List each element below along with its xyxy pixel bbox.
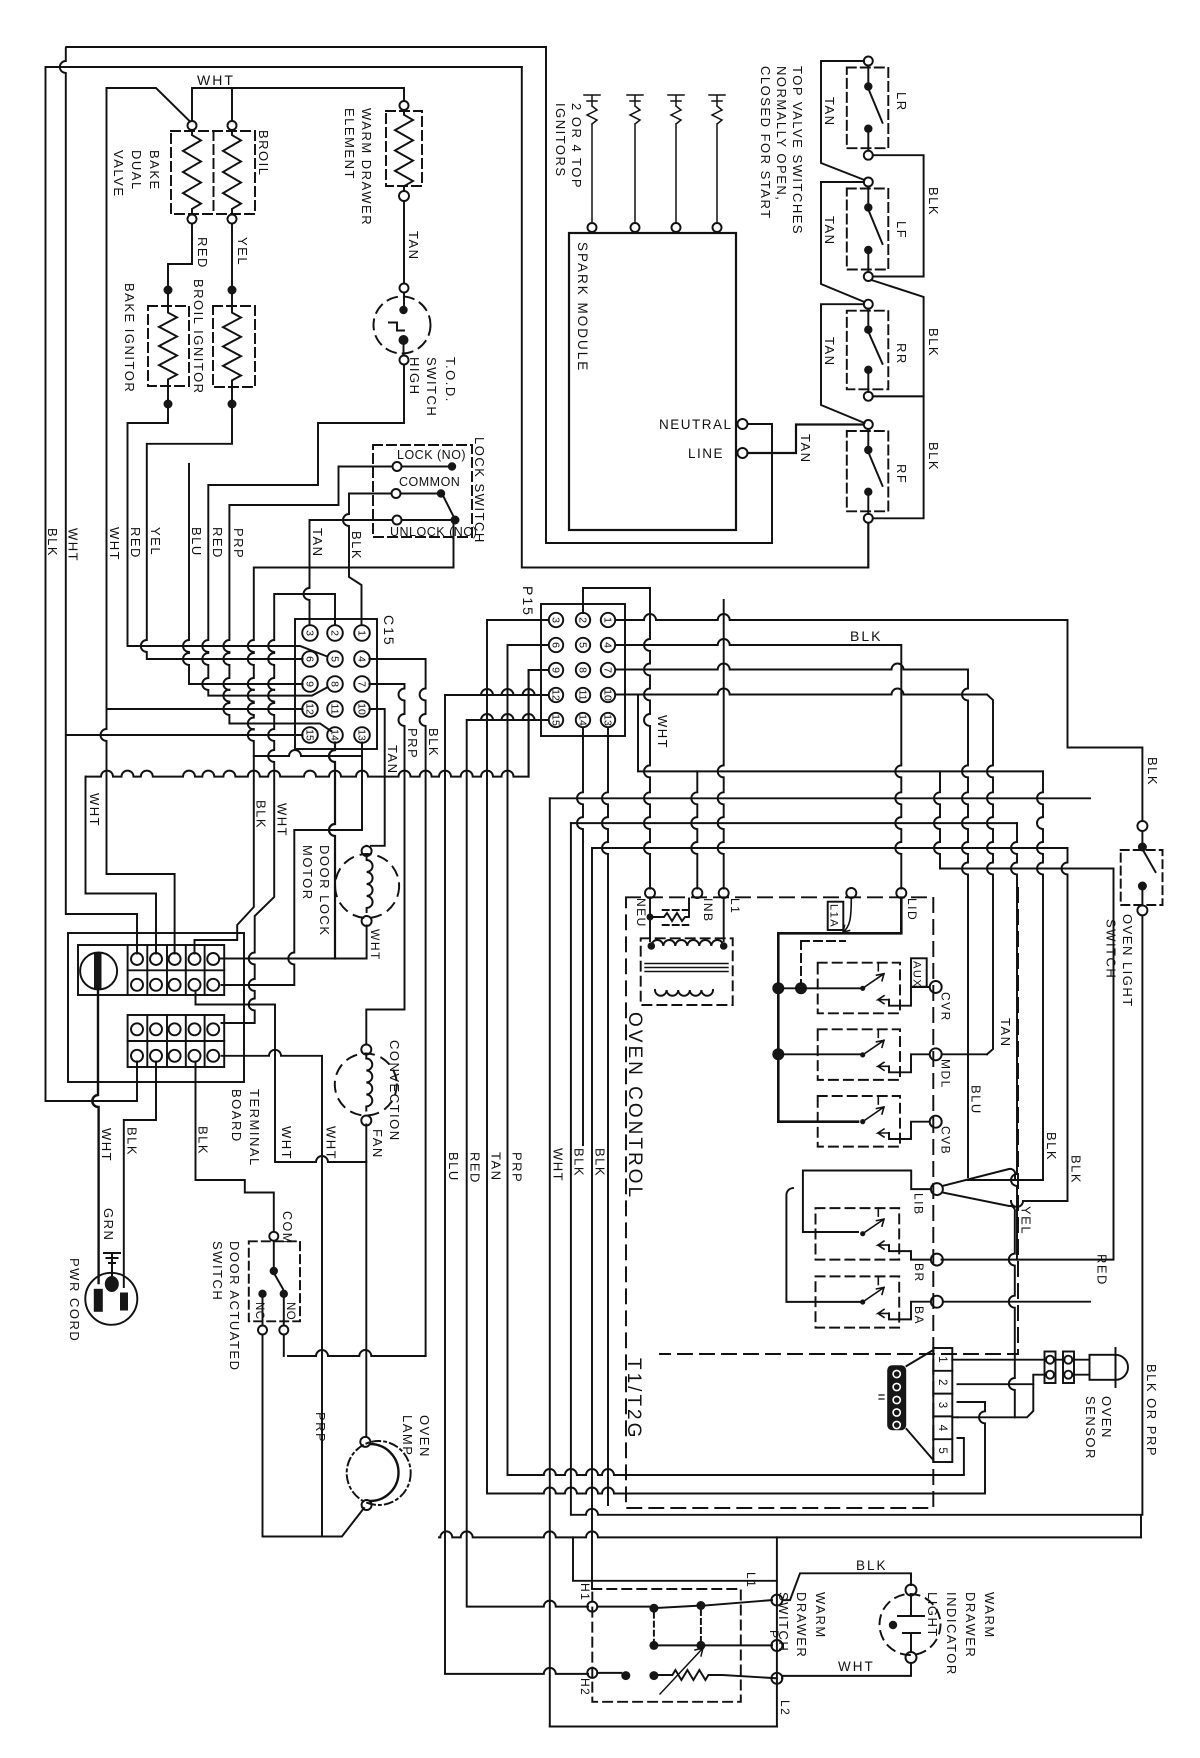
- wire: valve box top: [107, 88, 191, 122]
- svg-text:3: 3: [549, 617, 561, 623]
- svg-text:4: 4: [355, 656, 367, 662]
- wire: NC contact down to C15 area: [248, 524, 454, 756]
- wire: UNLOCK to TAN bus then C15 pin3: [304, 520, 393, 625]
- terminal motor bottom: [362, 916, 372, 926]
- door actuated switch box: [249, 1241, 300, 1321]
- sensor pin label 3: [936, 1402, 948, 1408]
- contact dot: [270, 1267, 278, 1275]
- wire L1 to light BLK: [782, 1573, 911, 1600]
- svg-text:PWR CORD: PWR CORD: [67, 1258, 82, 1342]
- relay CVB relay pivot: [860, 1119, 865, 1124]
- connector P15 box: [541, 604, 625, 736]
- terminal CVB: [930, 1116, 942, 1128]
- P15 pin 9: [549, 663, 563, 677]
- junction dot: [720, 942, 728, 950]
- wire: RF bottom down: [867, 523, 869, 568]
- variable resistor: [658, 1670, 777, 1680]
- svg-text:TAN: TAN: [998, 1018, 1013, 1048]
- tb pin lower: [150, 1023, 162, 1035]
- wire: L1A hook to relay bus: [843, 898, 851, 932]
- wire NEU down: [649, 898, 651, 941]
- contact dot NO: [280, 1290, 288, 1298]
- svg-text:BROIL: BROIL: [256, 130, 271, 177]
- top valve switch RF: [847, 431, 889, 511]
- terminal broil top: [228, 121, 237, 130]
- outer box bottom edge: [439, 1531, 1141, 1537]
- wire: WHT bracket over valves: [192, 88, 232, 121]
- tb pin lower: [169, 1050, 181, 1062]
- valve dual box: [171, 131, 255, 214]
- boxed label L1A: [828, 902, 844, 930]
- wire: BLK frame line: [46, 67, 522, 1101]
- C15 pin 14: [327, 727, 343, 743]
- plug prong: [94, 1289, 103, 1312]
- svg-text:LIB: LIB: [912, 1193, 926, 1216]
- svg-text:NORMALLY OPEN,: NORMALLY OPEN,: [774, 66, 789, 201]
- svg-text:DUAL: DUAL: [129, 150, 144, 191]
- warm drawer switch dashed box: [592, 1589, 741, 1702]
- wire: tb col5 row1 to door lock motor: [219, 926, 366, 959]
- ignitor symbol 1: [584, 95, 600, 223]
- wire: BLK RR to RF: [873, 396, 924, 518]
- P15 pin 4: [601, 638, 615, 652]
- tb pin lower: [207, 1050, 219, 1062]
- C15 pin 1: [354, 625, 370, 641]
- inner dashed vertical: [660, 888, 1018, 1354]
- svg-text:BOARD: BOARD: [229, 1089, 244, 1143]
- C15 pin 8: [327, 676, 343, 692]
- boxed label AUX: [911, 958, 927, 986]
- svg-text:1: 1: [936, 1356, 948, 1362]
- wire light bottom WHT to L2: [782, 1663, 911, 1678]
- C15 pin 10: [354, 701, 370, 717]
- wire: TAN bus LR feed: [821, 61, 865, 180]
- svg-text:DRAWER: DRAWER: [794, 1592, 809, 1658]
- bake ignitor box: [148, 306, 189, 386]
- svg-text:BLK: BLK: [349, 531, 364, 560]
- blade diag: [597, 1672, 621, 1674]
- wire: broil ignitor to YEL bus then C15 pin6: [141, 409, 303, 660]
- wire L1 down: [723, 898, 725, 941]
- wire: x1067.5 BLK riser: [1011, 848, 1068, 1207]
- svg-text:WHT: WHT: [107, 527, 122, 561]
- junction dots on bus: [772, 982, 784, 994]
- contact dot: [451, 516, 460, 525]
- svg-text:2 OR 4 TOP: 2 OR 4 TOP: [569, 103, 584, 189]
- P15 pin 15: [549, 713, 563, 727]
- svg-text:WARM DRAWER: WARM DRAWER: [359, 108, 374, 226]
- svg-text:LF: LF: [894, 221, 909, 239]
- TOD jog contact: [389, 323, 404, 331]
- relay BR relay box: [816, 1208, 900, 1260]
- resistor bake ignitor: [159, 308, 177, 384]
- svg-text:MOTOR: MOTOR: [300, 845, 315, 901]
- P15 pin 6: [549, 638, 563, 652]
- svg-text:NO: NO: [284, 1302, 296, 1320]
- svg-text:BLK: BLK: [1145, 757, 1160, 786]
- terminal lamp top: [360, 1437, 370, 1447]
- transformer core: [645, 964, 728, 972]
- svg-text:LR: LR: [894, 92, 909, 112]
- switch pole 1: [597, 1606, 649, 1608]
- svg-text:BAKE: BAKE: [147, 150, 162, 191]
- terminal CVR: [930, 981, 942, 993]
- wire: YEL broil valve to ignitor: [231, 224, 233, 286]
- terminal LID: [896, 888, 906, 898]
- svg-text:OVEN CONTROL: OVEN CONTROL: [624, 1012, 645, 1200]
- tb pin: [169, 953, 181, 965]
- junction dot: [647, 914, 654, 921]
- P15 pin 12: [549, 688, 563, 702]
- svg-text:L1: L1: [728, 898, 742, 914]
- contact dot: [1138, 882, 1147, 891]
- warm drawer element box: [386, 111, 422, 186]
- svg-text:10: 10: [601, 689, 613, 701]
- svg-text:7: 7: [601, 667, 613, 673]
- svg-text:9: 9: [303, 681, 315, 687]
- wire: row 848: [592, 847, 1068, 849]
- svg-text:WHT: WHT: [99, 1128, 114, 1162]
- C15 pin 5: [327, 651, 343, 667]
- resistor NEU-INB: [663, 910, 689, 925]
- terminal light top: [906, 1585, 917, 1596]
- sensor plug diagonals: [907, 1350, 934, 1460]
- svg-text:CVB: CVB: [939, 1126, 953, 1155]
- switch blade: [444, 497, 454, 517]
- wire pivot feed: [783, 1053, 860, 1055]
- svg-text:COMMON: COMMON: [399, 475, 460, 489]
- wire: x570.9 bus to oven light switch line: [571, 823, 1141, 1537]
- C15 pin 7: [354, 676, 370, 692]
- inner solid box around switch: [550, 1537, 777, 1726]
- sensor plug marks: [879, 1395, 884, 1399]
- svg-text:DOOR ACTUATED: DOOR ACTUATED: [227, 1241, 242, 1372]
- svg-text:RED: RED: [468, 1152, 483, 1184]
- wire: P15 pin15 feeder down to warm drawer H1: [467, 714, 588, 1607]
- terminal board upper block: [78, 945, 224, 995]
- P15 pin 5: [576, 638, 590, 652]
- svg-text:MDL: MDL: [939, 1059, 953, 1089]
- tb pin: [189, 979, 201, 991]
- wire: NC-BLK jog to terminal board: [195, 756, 254, 954]
- svg-text:L1A: L1A: [828, 904, 840, 928]
- sensor pin label 1: [936, 1356, 948, 1362]
- wire: x549.8 long bus: [550, 798, 777, 1726]
- terminal L1: [771, 1595, 782, 1606]
- wire: TOD bottom to RED bus2 then C15 pin8: [202, 365, 404, 696]
- junction dot: [164, 400, 173, 409]
- svg-text:C15: C15: [381, 615, 397, 647]
- svg-text:TAN: TAN: [822, 337, 837, 367]
- wire: P15 pin1 BLK to oven light switch: [616, 614, 1143, 821]
- svg-text:SWITCH: SWITCH: [424, 357, 439, 417]
- svg-text:OVEN LIGHT: OVEN LIGHT: [1120, 914, 1135, 1008]
- terminal H2: [587, 1668, 597, 1678]
- wire: P15 pin4 BLK to LID: [616, 639, 902, 889]
- wire: motor top jog to pin10 riser: [366, 845, 368, 847]
- motor coil: [367, 856, 373, 912]
- svg-text:GRN: GRN: [101, 1208, 116, 1241]
- resistor bake valve: [183, 130, 201, 214]
- terminal light bottom: [906, 1652, 917, 1663]
- svg-text:ELEMENT: ELEMENT: [342, 108, 357, 180]
- terminal strip L1 P L2: [776, 1537, 778, 1726]
- wire: row 798: [550, 797, 1090, 799]
- resistor broil ignitor: [223, 308, 241, 385]
- terminal TOD top: [400, 284, 409, 293]
- svg-text:WHT: WHT: [279, 1126, 294, 1160]
- dot: [889, 1621, 897, 1629]
- wire common contact: [401, 493, 437, 495]
- terminal L1A: [846, 888, 856, 898]
- svg-text:RED: RED: [195, 237, 210, 269]
- svg-text:BLK OR PRP: BLK OR PRP: [1144, 1364, 1159, 1457]
- svg-text:OVEN: OVEN: [1099, 1396, 1114, 1439]
- svg-text:PRP: PRP: [405, 728, 420, 759]
- svg-text:WHT: WHT: [838, 1659, 875, 1674]
- P15 pin 2: [576, 613, 590, 627]
- svg-text:TAN: TAN: [822, 97, 837, 127]
- svg-text:T1/T2G: T1/T2G: [623, 1358, 644, 1440]
- terminal BR: [931, 1254, 943, 1266]
- svg-text:TAN: TAN: [310, 528, 325, 558]
- svg-text:YEL: YEL: [235, 237, 250, 266]
- svg-text:BLK: BLK: [1044, 1132, 1059, 1161]
- sensor pin label 4: [936, 1425, 948, 1432]
- svg-text:WHT: WHT: [66, 528, 81, 562]
- wire: WHT bus to valves: [101, 88, 175, 954]
- wire: C15 pin14 down (thick): [329, 743, 335, 959]
- wire: BLK LR to LF: [873, 155, 924, 276]
- svg-text:RED: RED: [128, 527, 143, 559]
- wire sensor row1: [952, 1359, 1089, 1361]
- tb pin: [150, 953, 162, 965]
- svg-text:14: 14: [576, 714, 588, 726]
- terminal NO bottom: [279, 1326, 288, 1335]
- wire: P15 pin13 down: [602, 728, 608, 1506]
- transformer secondary: [655, 990, 713, 996]
- P15 pin 13: [601, 713, 615, 727]
- svg-text:1: 1: [601, 617, 613, 623]
- tb pin: [169, 979, 181, 991]
- svg-text:BLK: BLK: [593, 1148, 608, 1177]
- wire LINE to TAN riser to RF top: [748, 425, 864, 454]
- oven control dashed box: [626, 897, 933, 1508]
- wire: tb row2 col4 to convection fan WHT: [196, 991, 367, 1162]
- wire: COMMON to BLK bus then C15 pin1: [343, 494, 392, 626]
- svg-text:PRP: PRP: [510, 1152, 525, 1183]
- svg-text:OVEN: OVEN: [417, 1415, 432, 1458]
- wire: WHT bus T to C15 pin12: [107, 708, 303, 710]
- C15 pin 3: [302, 625, 318, 641]
- terminal fan bottom: [361, 1116, 371, 1126]
- convection fan dashed circle: [335, 1054, 397, 1116]
- svg-text:WHT: WHT: [87, 793, 102, 827]
- svg-text:12: 12: [303, 703, 315, 715]
- svg-text:13: 13: [355, 729, 367, 741]
- relay BR relay pivot: [860, 1231, 865, 1236]
- svg-text:BLK: BLK: [426, 728, 441, 757]
- svg-text:YEL: YEL: [148, 527, 163, 556]
- sensor strip 1-5: [933, 1348, 952, 1462]
- wire: row 771 from pin10 drop: [638, 695, 1043, 772]
- C15 pin 9: [302, 676, 318, 692]
- cell dividers upper: [127, 945, 129, 995]
- sensor bulb: [1090, 1355, 1116, 1380]
- lamp filament arc: [370, 1444, 399, 1501]
- svg-text:SWITCH: SWITCH: [1104, 919, 1119, 979]
- tb pin lower: [150, 1050, 162, 1062]
- svg-text:8: 8: [328, 681, 340, 687]
- svg-text:HIGH: HIGH: [407, 357, 422, 396]
- svg-text:PRP: PRP: [231, 528, 246, 559]
- C15 pin 11: [327, 701, 343, 717]
- tb pin: [207, 953, 219, 965]
- oven lamp dashed circle: [347, 1441, 411, 1505]
- junction dot: [228, 286, 237, 295]
- terminal MDL: [930, 1048, 942, 1060]
- svg-text:6: 6: [549, 642, 561, 648]
- terminal P: [771, 1640, 782, 1651]
- tb pin: [150, 979, 162, 991]
- svg-text:LOCK SWITCH: LOCK SWITCH: [472, 437, 487, 544]
- svg-text:RR: RR: [894, 343, 909, 365]
- wire OLS bottom down: [1141, 915, 1143, 1514]
- terminal spark module 3: [672, 223, 681, 232]
- broil ignitor box: [213, 306, 255, 387]
- C15 pin 15: [302, 727, 318, 743]
- svg-text:BROIL IGNITOR: BROIL IGNITOR: [191, 279, 206, 395]
- svg-text:8: 8: [576, 667, 588, 673]
- svg-text:H1: H1: [578, 1583, 592, 1601]
- svg-text:INDICATOR: INDICATOR: [944, 1592, 959, 1676]
- plug prong: [120, 1293, 128, 1311]
- resistor broil valve: [223, 130, 241, 214]
- tb pin lower: [131, 1050, 143, 1062]
- transformer primary: [651, 940, 723, 946]
- svg-text:CLOSED FOR START: CLOSED FOR START: [758, 66, 773, 220]
- wire: C15 pin10 to door lock motor: [370, 709, 385, 846]
- terminal NC bottom: [258, 1326, 267, 1335]
- pwr cord circle: [85, 1273, 137, 1325]
- big circle with bar: [80, 953, 117, 990]
- ground symbol GRN: [104, 1253, 120, 1277]
- svg-text:WHT: WHT: [551, 1148, 566, 1182]
- terminal common: [392, 489, 401, 498]
- wire: C15 pin4 BLK down: [370, 659, 426, 1356]
- wire: H5 long horizontal under C15: [86, 670, 549, 777]
- junction dot: [228, 400, 237, 409]
- svg-text:VALVE: VALVE: [111, 150, 126, 197]
- terminal wde top: [400, 101, 409, 110]
- wire: BLK LF to RR: [872, 280, 924, 396]
- svg-text:AUX: AUX: [911, 961, 923, 988]
- wire pole1 to L1: [705, 1600, 772, 1605]
- door lock motor dashed circle: [335, 854, 399, 918]
- svg-text:DRAWER: DRAWER: [963, 1592, 978, 1658]
- terminal board lower block: [128, 1015, 225, 1067]
- wire MDL to right verticals: [942, 1053, 987, 1055]
- sensor plug black: [887, 1365, 906, 1430]
- terminal spark module 4: [713, 223, 722, 232]
- wire: door NO line: [288, 1350, 426, 1356]
- wire: P15 pin9 feeder: [529, 670, 549, 777]
- P15 pin 7: [601, 663, 615, 677]
- relay AUX relay pivot: [860, 986, 865, 991]
- svg-text:T.O.D.: T.O.D.: [443, 357, 458, 403]
- P15 pin 1: [601, 613, 615, 627]
- svg-text:11: 11: [328, 704, 340, 715]
- terminal spark module 2: [631, 223, 640, 232]
- svg-text:1: 1: [355, 630, 367, 636]
- terminal motor top: [362, 846, 372, 856]
- terminal unlock: [393, 516, 402, 525]
- contact dot: [437, 489, 445, 497]
- relay BA relay box: [816, 1276, 900, 1327]
- svg-text:TAN: TAN: [406, 231, 421, 261]
- relay MDL relay pivot: [860, 1052, 865, 1057]
- svg-text:WHT: WHT: [324, 1126, 339, 1160]
- P15 pin 10: [601, 688, 615, 702]
- top valve switch RR: [847, 311, 889, 390]
- tb pin: [189, 953, 201, 965]
- terminal LIB: [931, 1183, 943, 1195]
- wire: tb black bar to pwr cord WHT: [92, 989, 98, 1283]
- wire: P15 pin10 TAN to MDL: [616, 689, 994, 1055]
- ignitor symbol 2: [627, 95, 643, 223]
- svg-text:BLU: BLU: [446, 1152, 461, 1182]
- top valve switch LR: [847, 68, 889, 149]
- wire pole2 to P: [705, 1644, 772, 1646]
- svg-text:TAN: TAN: [489, 1152, 504, 1182]
- svg-text:TAN: TAN: [798, 434, 813, 464]
- svg-text:WARM: WARM: [982, 1592, 997, 1639]
- terminal NEU: [645, 888, 655, 898]
- wire: tb lower row2 col5 to right: [222, 1050, 323, 1537]
- wire: tb lower col2 to plug BLK: [124, 1062, 156, 1288]
- svg-text:6: 6: [303, 656, 315, 662]
- P15 pin 11: [576, 688, 590, 702]
- wire: L1 riser: [718, 600, 724, 889]
- terminal OLS top: [1137, 821, 1147, 831]
- wire: RED bake valve to ignitor: [168, 224, 192, 286]
- svg-text:3: 3: [303, 630, 315, 636]
- svg-text:CONVECTION: CONVECTION: [387, 1040, 402, 1142]
- svg-text:L2: L2: [778, 1700, 792, 1716]
- svg-text:BLK: BLK: [926, 328, 941, 357]
- svg-text:SENSOR: SENSOR: [1083, 1396, 1098, 1460]
- wire: LOCK(NO) to PRP bus then C15 pin14: [223, 467, 392, 732]
- tb pin lower: [189, 1050, 201, 1062]
- terminal wde bottom: [399, 191, 409, 201]
- svg-text:WHT: WHT: [275, 803, 290, 837]
- connector C15 box: [295, 619, 377, 749]
- connector blocks: [1045, 1352, 1056, 1384]
- wire: LIB upper diagonal to BLK riser: [943, 1169, 1044, 1186]
- wire: row 868 BR link: [934, 771, 1114, 1259]
- wire: BLU bus to C15 pin9: [183, 464, 303, 684]
- lock switch box: [373, 445, 472, 537]
- terminal INB: [692, 888, 702, 898]
- relay BA relay pivot: [860, 1299, 865, 1304]
- wire: pin2 riser to NEU (WHT): [583, 588, 650, 889]
- svg-text:TAN: TAN: [385, 745, 400, 775]
- terminal L1: [719, 888, 729, 898]
- terminal fan top: [361, 1045, 371, 1055]
- wire: x1043 BLK riser: [1037, 771, 1043, 1180]
- svg-text:LINE: LINE: [688, 446, 724, 461]
- svg-text:RF: RF: [894, 464, 909, 484]
